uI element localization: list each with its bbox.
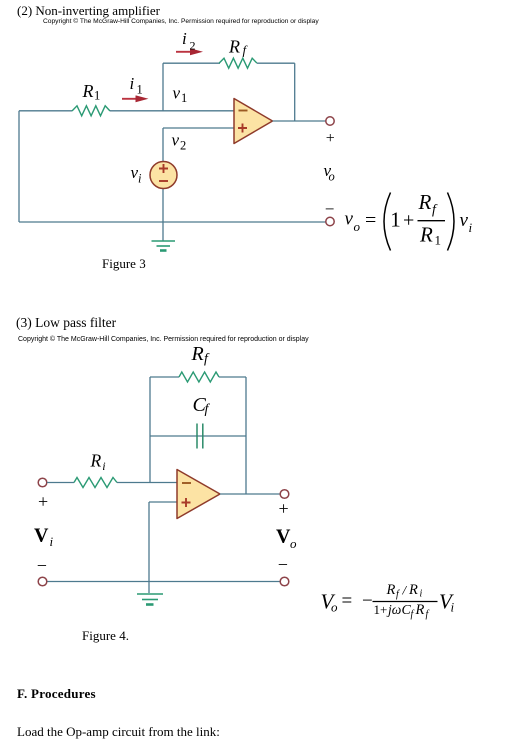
arrow i1: [122, 98, 136, 100]
svg-text:+: +: [403, 209, 414, 231]
wire: feedback right vertical to output: [294, 63, 296, 121]
wire: op-amp output circuit 2: [220, 493, 280, 495]
terminal: output - circuit 1: [326, 217, 334, 225]
svg-text:1: 1: [390, 208, 401, 232]
svg-text:2: 2: [190, 39, 196, 53]
wire: top feedback right segment: [257, 62, 295, 64]
terminal: input top circuit 2: [38, 478, 47, 487]
svg-text:i: i: [138, 172, 142, 186]
wire: v2 vertical down to source: [162, 128, 164, 162]
svg-text:i: i: [469, 220, 473, 235]
svg-text:o: o: [290, 536, 297, 551]
svg-text:o: o: [354, 219, 361, 234]
terminal: output + circuit 1: [326, 117, 334, 125]
svg-text:+: +: [326, 130, 335, 147]
heading F. Procedures: [17, 686, 96, 702]
svg-text:i: i: [50, 534, 54, 549]
wire: input to Ri: [47, 482, 74, 484]
wire: bottom rail circuit 2: [47, 581, 280, 583]
wire: Rf top right segment: [219, 376, 246, 378]
equation 1: vo = (1 + Rf/R1) vi: [345, 190, 473, 251]
svg-text:R: R: [191, 343, 204, 365]
svg-text:f: f: [432, 203, 438, 218]
svg-text:f: f: [243, 43, 249, 58]
svg-text:R: R: [419, 223, 433, 247]
svg-text:R: R: [415, 602, 425, 618]
svg-text:i: i: [451, 600, 455, 615]
svg-text:v: v: [345, 209, 354, 230]
svg-text:+: +: [38, 492, 48, 512]
wire: Cf left segment: [150, 435, 246, 437]
wire: Rf top left segment: [150, 376, 179, 378]
svg-text:f: f: [204, 352, 210, 367]
svg-text:V: V: [34, 525, 49, 547]
wire: left vertical: [18, 111, 20, 222]
wire: R1 to op-amp minus input (node v1): [110, 110, 234, 112]
op-amp U2: [177, 470, 220, 519]
wire: op-amp output: [273, 120, 326, 122]
paragraph: load link: [17, 724, 220, 740]
terminal: input bottom circuit 2: [38, 577, 47, 586]
svg-text:R: R: [82, 81, 94, 101]
svg-text:f: f: [205, 402, 211, 417]
svg-text:2: 2: [180, 139, 186, 153]
svg-text:f: f: [426, 609, 430, 620]
resistor Rf filter: [179, 372, 219, 382]
wire: bottom rail circuit 1: [19, 221, 326, 223]
svg-text:f: f: [396, 589, 400, 600]
svg-text:o: o: [329, 170, 335, 184]
svg-text:v: v: [172, 131, 180, 150]
svg-text:1: 1: [137, 82, 143, 96]
svg-text:−: −: [362, 591, 373, 612]
svg-text:v: v: [173, 83, 181, 102]
svg-text:i: i: [102, 459, 105, 473]
ground circuit 1: [152, 241, 176, 251]
wire: source bottom to rail: [162, 189, 164, 223]
svg-text:R: R: [386, 582, 396, 598]
ground circuit 2: [137, 594, 163, 605]
resistor Rf: [219, 58, 257, 68]
wire: ground stub circuit 1: [162, 222, 164, 241]
wire: v2 horizontal to plus input: [163, 127, 234, 129]
svg-text:f: f: [411, 609, 415, 620]
svg-text:R: R: [90, 450, 102, 470]
svg-text:i: i: [420, 589, 423, 600]
caption Figure 4: [82, 628, 129, 644]
wire: plus input vertical to ground: [148, 502, 150, 593]
copyright line 2: [18, 336, 309, 343]
equation 2: Vo = -(Rf/Ri)/(1+jwCfRf) Vi: [321, 582, 455, 620]
terminal: output top circuit 2: [280, 490, 289, 499]
svg-text:/: /: [402, 583, 408, 598]
voltage source vi: [150, 162, 177, 189]
wire: left branch vertical: [149, 377, 151, 483]
svg-text:V: V: [276, 526, 291, 548]
wire: Ri to op-amp minus: [117, 482, 177, 484]
resistor R1: [72, 106, 110, 116]
svg-text:−: −: [37, 556, 47, 576]
svg-text:R: R: [408, 582, 418, 598]
svg-text:−: −: [278, 554, 288, 574]
svg-text:1: 1: [435, 233, 442, 248]
svg-text:R: R: [418, 190, 432, 214]
heading section (3): [16, 315, 116, 331]
svg-text:1: 1: [181, 91, 187, 105]
svg-text:+: +: [279, 498, 289, 518]
svg-text:1+: 1+: [374, 602, 388, 617]
svg-text:jω: jω: [386, 602, 401, 617]
heading section (2): [17, 3, 160, 19]
svg-text:R: R: [228, 37, 240, 57]
svg-text:=: =: [365, 210, 376, 232]
wire: right branch vertical: [245, 377, 247, 494]
copyright line 1: [43, 18, 319, 25]
wire: input left segment to R1: [19, 110, 72, 112]
wire: node v1 vertical up: [162, 63, 164, 111]
svg-text:1: 1: [94, 89, 100, 103]
terminal: output bottom circuit 2: [280, 577, 289, 586]
caption Figure 3: [102, 256, 146, 272]
svg-text:v: v: [460, 210, 469, 231]
svg-text:i: i: [130, 74, 135, 93]
svg-text:−: −: [325, 199, 335, 218]
arrow i2: [176, 51, 191, 53]
wire: plus input horizontal: [149, 501, 177, 503]
svg-text:o: o: [331, 600, 338, 615]
op-amp U1: [234, 99, 273, 144]
svg-text:=: =: [342, 591, 353, 612]
resistor Ri: [74, 478, 117, 488]
wire: top feedback left segment: [163, 62, 220, 64]
capacitor Cf: [197, 424, 203, 449]
svg-text:i: i: [182, 29, 187, 48]
